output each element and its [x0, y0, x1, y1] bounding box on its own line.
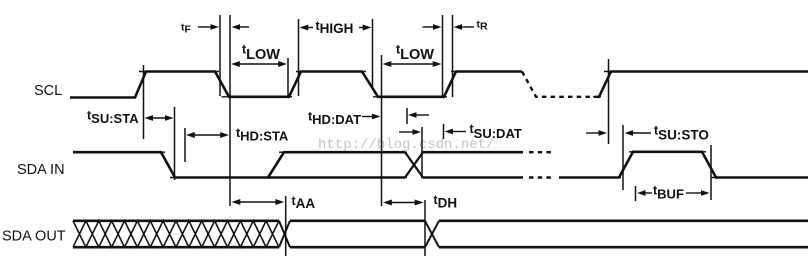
arrow tBUF right-pointing	[686, 190, 710, 196]
marker line tHIGH left	[298, 19, 300, 96]
SDA OUT band bottom lines	[73, 246, 808, 249]
svg-text:SCL: SCL	[34, 83, 62, 99]
arrow tHIGH pair	[300, 25, 372, 31]
arrow tHD:DAT right-pointing	[362, 114, 381, 120]
marker line tHIGH right	[372, 19, 374, 88]
SDA IN crossover X	[405, 152, 423, 177]
svg-text:tHD:DAT: tHD:DAT	[308, 109, 361, 127]
arrow tLOW1 double	[231, 61, 287, 67]
arrow tSU:STA double	[145, 115, 174, 121]
marker line tSU:STO right	[622, 125, 624, 190]
svg-text:SDA OUT: SDA OUT	[2, 229, 66, 245]
arrow tSU:DAT left-pointing	[445, 129, 467, 135]
marker line tBUF right	[710, 145, 712, 200]
arrow tLOW2 double	[383, 61, 442, 67]
arrow tSU:STO right-pointing	[586, 130, 607, 136]
svg-text:SDA IN: SDA IN	[17, 162, 65, 178]
marker line tAA right	[285, 196, 287, 256]
marker line tSU:DAT right short	[443, 124, 445, 139]
SDA IN rise mid	[268, 152, 405, 177]
marker line tSU:STA left	[143, 65, 145, 139]
marker line tSU:DAT left	[421, 127, 423, 177]
marker line tDH right	[424, 200, 426, 256]
marker line tHD:DAT left long	[381, 55, 383, 206]
SCL waveform dashed segment	[522, 72, 597, 97]
marker line tBUF left	[635, 186, 637, 201]
arrow tR pair	[423, 24, 475, 30]
SDA IN waveform left	[73, 152, 405, 177]
arrow tBUF left-pointing	[637, 190, 652, 196]
SCL waveform solid	[70, 72, 522, 98]
SDA OUT crosshatch	[73, 221, 279, 247]
corner ticks SDA IN	[157, 152, 719, 178]
svg-text:tBUF: tBUF	[653, 184, 684, 202]
svg-text:tR: tR	[477, 18, 489, 32]
marker line tF left	[219, 15, 221, 96]
corner ticks SCL	[139, 72, 612, 97]
marker line tF right long	[229, 15, 231, 206]
marker line tSU:STO left	[608, 59, 610, 144]
svg-text:tSU:STA: tSU:STA	[87, 108, 139, 126]
svg-text:http://blog.csdn.net/: http://blog.csdn.net/	[318, 137, 494, 153]
SDA IN stop/start pulse	[559, 152, 808, 178]
SDA OUT crossover X1	[279, 221, 290, 247]
arrow tAA double	[232, 199, 285, 205]
arrow tF pair	[198, 24, 249, 30]
marker line tLOW1 right	[287, 58, 289, 97]
SDA IN rails after X	[423, 152, 523, 177]
marker line tR left	[442, 15, 444, 97]
arrow tDH double	[383, 200, 424, 206]
SCL waveform right solid	[597, 72, 808, 97]
arrow tSU:DAT right-pointing	[399, 129, 421, 135]
marker line tHD:STA left	[184, 128, 186, 162]
marker line tHD:DAT right short	[406, 108, 408, 124]
marker line tSU:STA right	[174, 107, 176, 180]
svg-text:tHIGH: tHIGH	[316, 19, 354, 36]
arrow tSU:STO left-pointing	[625, 130, 652, 136]
SDA IN dashed rails	[529, 152, 554, 177]
svg-text:tAA: tAA	[292, 194, 316, 211]
arrow tHD:STA double	[186, 132, 229, 138]
svg-text:tDH: tDH	[434, 193, 458, 210]
marker line tR right	[452, 15, 454, 97]
svg-text:tHD:STA: tHD:STA	[236, 126, 289, 143]
SDA OUT crossover X2	[425, 221, 439, 247]
SDA OUT band top lines	[73, 220, 808, 223]
arrow tHD:DAT partner left-pointing	[408, 112, 429, 118]
